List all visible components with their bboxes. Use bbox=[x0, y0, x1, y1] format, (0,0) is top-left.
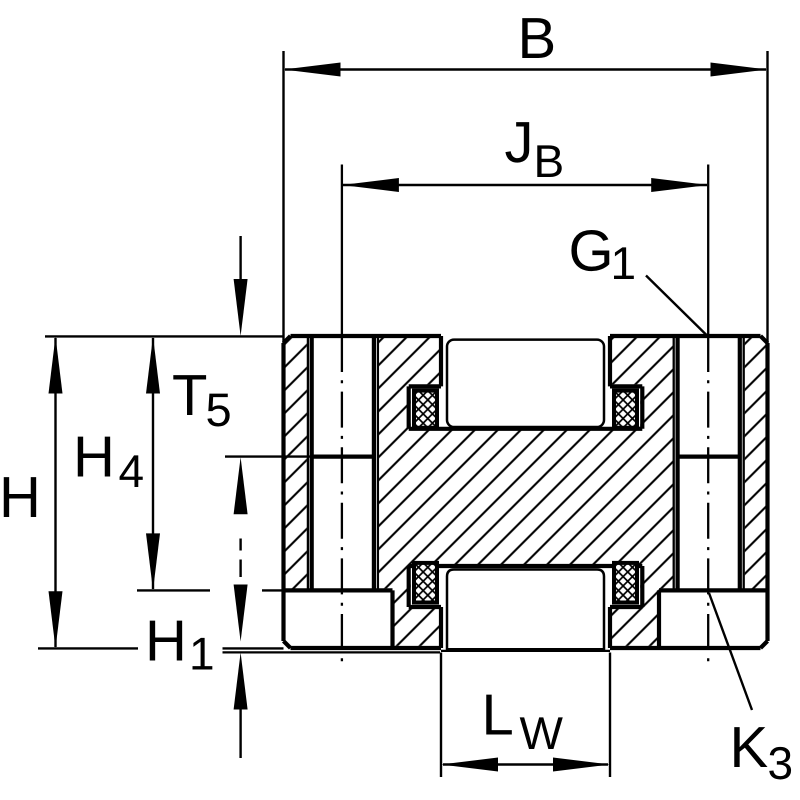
dimension T5 upper shaft bbox=[239, 236, 241, 282]
dimension LW line bbox=[443, 763, 608, 765]
H4 bottom reference line bbox=[137, 589, 210, 591]
left bolt hole bore line left bbox=[310, 336, 314, 590]
bottom right seal notch side bbox=[640, 566, 644, 607]
svg-text:1: 1 bbox=[189, 628, 215, 680]
dimension LW arrowhead right bbox=[553, 758, 610, 772]
dimension JB arrowhead left bbox=[342, 178, 399, 192]
right bolt hole bore line left bbox=[675, 336, 679, 590]
bottom baseline near body bbox=[223, 647, 284, 649]
dimension H4 arrowhead bottom bbox=[146, 533, 160, 590]
body outline top edge right segment bbox=[610, 334, 761, 338]
seal top-right bbox=[612, 389, 639, 430]
body chamfer top-left bbox=[284, 336, 291, 343]
bottom right seal notch bottom bbox=[610, 605, 642, 609]
dimension B arrowhead right bbox=[711, 63, 768, 77]
body outline left edge bbox=[281, 343, 285, 641]
bottom lower thin line bbox=[223, 651, 441, 653]
top bore left wall bbox=[439, 336, 443, 386]
top bearing cartridge bbox=[447, 340, 604, 427]
dimension H1 arrowhead down at foot bottom bbox=[234, 585, 248, 642]
dimension H1 arrowhead up below body bbox=[234, 653, 248, 710]
top right seal notch top bbox=[610, 384, 642, 388]
hatched right outer wall bbox=[745, 337, 767, 590]
dimension H4 line bbox=[152, 338, 154, 589]
svg-text:H: H bbox=[145, 609, 187, 674]
body outline top edge left segment bbox=[291, 334, 442, 338]
bottom bearing cartridge bbox=[447, 570, 604, 650]
left foot step line bbox=[284, 588, 393, 592]
bottom bore left wall bbox=[439, 607, 443, 648]
T5 bottom reference line bbox=[225, 455, 312, 457]
body chamfer bottom-left bbox=[284, 641, 291, 648]
dimension LW arrowhead left bbox=[441, 758, 498, 772]
bottom bore ceiling bbox=[409, 564, 643, 568]
svg-text:K: K bbox=[730, 715, 769, 780]
svg-text:T: T bbox=[172, 363, 207, 428]
bottom baseline left part bbox=[38, 647, 138, 649]
right bolt hole centerline dash-dot bbox=[707, 336, 709, 665]
svg-text:B: B bbox=[518, 6, 557, 71]
left bolt hole thread thin line left bbox=[307, 336, 309, 590]
G1 leader line bbox=[646, 276, 707, 336]
bottom face thin line across opening bbox=[441, 650, 610, 652]
right foot step line bbox=[659, 588, 768, 592]
svg-text:W: W bbox=[520, 707, 564, 759]
left foot inner wall bbox=[390, 590, 394, 648]
body outline bottom edge left segment bbox=[291, 646, 442, 650]
hatched left outer wall bbox=[285, 337, 307, 590]
dimension H arrowhead bottom bbox=[49, 591, 63, 648]
svg-text:3: 3 bbox=[768, 737, 794, 789]
bottom left seal notch side bbox=[407, 566, 411, 607]
seal bottom-left bbox=[412, 561, 439, 605]
bottom bore right wall bbox=[608, 607, 612, 648]
body outline bottom edge right segment bbox=[610, 646, 761, 650]
dimension T5 arrowhead down at top face bbox=[234, 279, 248, 336]
dimension B line bbox=[285, 68, 766, 70]
body chamfer bottom-right bbox=[761, 641, 768, 648]
dimension T5 arrowhead up at thread depth bbox=[234, 457, 248, 514]
right foot inner wall bbox=[657, 590, 661, 648]
H1 top reference line segment bbox=[262, 589, 288, 591]
top bore floor bbox=[409, 427, 643, 431]
top right seal notch side bbox=[640, 386, 644, 428]
dimension B arrowhead left bbox=[284, 63, 341, 77]
svg-text:G: G bbox=[569, 218, 614, 283]
dimension B extension line left bbox=[282, 51, 284, 343]
dimension H line bbox=[54, 338, 56, 647]
hatched middle block bbox=[379, 337, 673, 646]
seal top-left bbox=[412, 389, 439, 430]
svg-text:L: L bbox=[482, 682, 514, 747]
top face reference line left bbox=[45, 335, 284, 337]
left bolt hole thread depth step line bbox=[312, 455, 374, 459]
dimension B extension line right bbox=[766, 51, 768, 343]
body chamfer top-right bbox=[761, 336, 768, 343]
right bolt hole bore line right bbox=[738, 336, 742, 590]
right bolt hole centerline solid upper part bbox=[707, 165, 709, 337]
seal bottom-right bbox=[612, 561, 639, 605]
T5/H1 shaft dashes bbox=[239, 539, 241, 578]
left bolt hole centerline dash-dot bbox=[341, 336, 343, 665]
left bolt hole thread thin line right bbox=[377, 336, 379, 590]
svg-text:J: J bbox=[505, 110, 534, 175]
left bolt hole bore line right bbox=[372, 336, 376, 590]
LW extension line left bbox=[440, 653, 442, 778]
left bolt hole centerline solid upper part bbox=[341, 165, 343, 337]
body outline right edge bbox=[765, 343, 769, 641]
H1 lower shaft bbox=[239, 710, 241, 759]
svg-text:B: B bbox=[534, 135, 565, 187]
svg-text:4: 4 bbox=[119, 445, 145, 497]
K3 leader line bbox=[709, 593, 752, 710]
bottom left seal notch bottom bbox=[409, 605, 441, 609]
dimension JB line bbox=[343, 184, 707, 186]
LW extension line right bbox=[609, 653, 611, 778]
svg-text:H: H bbox=[0, 465, 41, 530]
svg-text:1: 1 bbox=[611, 237, 637, 289]
top bore right wall bbox=[608, 336, 612, 386]
dimension H4 arrowhead top bbox=[146, 337, 160, 394]
svg-text:5: 5 bbox=[206, 383, 232, 436]
right bolt hole thread depth step line bbox=[678, 455, 740, 459]
right bolt hole thread thin line right bbox=[743, 336, 745, 590]
dimension JB arrowhead right bbox=[651, 178, 708, 192]
svg-text:H: H bbox=[73, 424, 115, 489]
top left seal notch side bbox=[407, 386, 411, 428]
dimension H arrowhead top bbox=[49, 337, 63, 394]
top left seal notch top bbox=[409, 384, 441, 388]
right bolt hole thread thin line left bbox=[673, 336, 675, 590]
